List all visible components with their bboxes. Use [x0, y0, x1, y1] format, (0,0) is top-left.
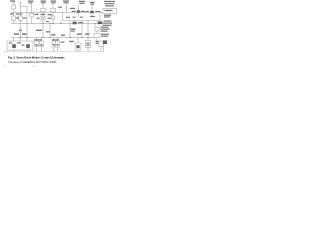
scan speck 2 — [33, 66, 36, 68]
svg-text:Courtesy of GENERAL MOTORS COR: Courtesy of GENERAL MOTORS CORP. — [8, 60, 57, 64]
wire V1 top tick — [13, 1, 15, 3]
label L3 core — [53, 44, 55, 46]
label row3 b — [22, 33, 27, 35]
wire V1 top — [13, 2, 15, 5]
switch SW2 blob — [26, 44, 30, 48]
label K4 side — [78, 22, 83, 23]
label row3 g — [61, 35, 65, 36]
wire V8 — [52, 4, 54, 8]
label row3 j — [85, 33, 90, 34]
label right mid 3 — [101, 31, 108, 32]
wire lower stubs — [13, 38, 15, 42]
label row3 h — [71, 28, 76, 29]
motor M5 core — [76, 45, 79, 48]
label near bus A — [58, 7, 62, 8]
label R2 top — [19, 13, 23, 14]
switch SW1 blob — [12, 44, 16, 48]
label HOT AT ALL TIMES 1 — [10, 0, 15, 1]
solenoid L4 — [56, 41, 60, 47]
wire V16 — [91, 5, 93, 11]
resistor R2 — [19, 16, 23, 20]
label right block line3 — [105, 5, 114, 6]
label R1 side — [16, 17, 19, 18]
label M5 top — [69, 41, 74, 42]
sensor B1 box — [94, 33, 100, 38]
label HOT AT ALL TIMES 2 — [79, 1, 85, 2]
label right block line1 — [104, 1, 115, 2]
label M2 top — [34, 39, 42, 40]
wire V6 b — [42, 12, 44, 16]
label in assembly 3 — [22, 45, 25, 46]
wire bottoms to ground — [36, 47, 38, 52]
label B3 right — [37, 18, 40, 19]
label D1 left — [48, 14, 53, 15]
wire V8 b — [52, 12, 54, 16]
label row3 f — [51, 34, 56, 35]
wire V B1 feed — [96, 31, 98, 33]
label C2 — [90, 2, 95, 3]
wire bus C — [11, 37, 94, 39]
wire V11 low — [69, 21, 71, 38]
wire V10 — [66, 4, 68, 12]
wire dashed ground bus — [4, 51, 104, 53]
wire V coil2 down — [94, 24, 96, 28]
label HOT IN ACC — [63, 0, 69, 1]
switch S4 — [86, 41, 91, 48]
label B3 side — [35, 14, 39, 15]
label S4 in 2 — [87, 45, 90, 46]
label right K5 3 — [103, 25, 112, 26]
fuse F3 box — [51, 8, 56, 12]
label S5 left 2 — [96, 43, 99, 44]
wire tee top — [21, 6, 28, 8]
label S1 top — [41, 14, 46, 15]
label L4 core — [57, 44, 59, 46]
module U1 box — [63, 12, 101, 21]
wire V13 — [78, 5, 80, 11]
resistor R1 — [12, 16, 16, 20]
label in module 2 — [73, 17, 76, 18]
switch S1 crossed box — [41, 16, 45, 20]
label right block line2 — [105, 3, 115, 4]
wire V3 — [26, 7, 28, 38]
label S5 left 1 — [96, 41, 99, 42]
label in module 3 — [90, 16, 95, 17]
label row3 d — [36, 30, 42, 31]
scan speck 1 — [4, 66, 7, 68]
relay K5 — [98, 22, 103, 25]
wire V1 low — [13, 20, 15, 23]
motor pump M3 — [40, 41, 44, 47]
relay K4 — [73, 22, 77, 25]
switch assembly box — [7, 41, 33, 50]
switch S5 — [99, 41, 103, 46]
fuse F2 box — [41, 8, 46, 12]
connector J1 box — [103, 8, 117, 13]
label FUSE 7 — [51, 1, 57, 2]
solenoid L3 — [52, 41, 56, 47]
label R2 side — [23, 17, 26, 18]
wire V2 tick — [19, 1, 21, 3]
wire V17 — [99, 21, 101, 24]
label in assembly 2 — [17, 42, 21, 43]
label S4 in 1 — [87, 43, 90, 44]
svg-text:Fig. 3. Servo Drive Motors Con: Fig. 3. Servo Drive Motors Control Schem… — [8, 56, 65, 60]
breaker B3 — [30, 13, 34, 17]
wire V8 d — [49, 24, 51, 38]
wire V8 c — [52, 19, 54, 24]
wire V2 low — [20, 20, 22, 37]
wire bus A — [11, 12, 63, 14]
fuse F1 box — [12, 5, 16, 9]
label bus B tag — [46, 21, 49, 22]
wire V12 — [74, 21, 76, 24]
label M3 core — [40, 44, 42, 46]
motor pump M2 — [35, 41, 39, 47]
label row3 c — [19, 30, 22, 31]
label M2 core — [35, 44, 37, 46]
label right mid 1 — [101, 27, 109, 28]
label below J1 line2 — [104, 16, 110, 17]
label row3 i — [77, 33, 82, 34]
wire bus A to connector — [100, 12, 103, 14]
wire V13 low — [81, 21, 83, 38]
label right K5 1 — [104, 21, 112, 22]
diode D1 — [51, 16, 55, 19]
label below J1 — [104, 15, 111, 16]
wire V4 — [31, 4, 33, 13]
wire V15 low — [87, 21, 89, 38]
relay K3 coil — [90, 11, 94, 13]
motor B2 blob — [103, 40, 107, 44]
label L4 side — [61, 42, 65, 43]
wire V6 — [42, 4, 44, 8]
label right mid 2 — [101, 29, 110, 30]
relay K2 coil — [77, 10, 81, 12]
label J1 inside 1 — [105, 10, 113, 11]
wire bus B — [11, 23, 100, 25]
label right K5 2 — [103, 23, 112, 24]
wire V2 — [20, 2, 22, 16]
junction dots — [20, 23, 96, 38]
label L3 top — [52, 39, 59, 40]
wire V B1 down — [96, 38, 98, 41]
wire connector leg — [109, 14, 111, 15]
motor M5 — [75, 43, 81, 50]
label in assembly 1 — [9, 42, 12, 43]
label B1 side 2 — [101, 36, 108, 37]
label HOT IN RUN — [28, 1, 34, 2]
wire V6 c — [42, 20, 44, 38]
label in module 1 — [66, 17, 70, 18]
wire V4 low — [31, 17, 33, 24]
wire V1 mid — [13, 9, 15, 16]
label B1 side 1 — [101, 34, 109, 35]
label R1 top — [10, 13, 14, 14]
label FUSE 4 — [41, 1, 47, 2]
relay K6 box — [95, 27, 99, 31]
label row3 e — [46, 31, 50, 32]
wire module leg — [60, 21, 62, 24]
label C205 — [70, 8, 75, 9]
label row3 a — [14, 33, 19, 35]
